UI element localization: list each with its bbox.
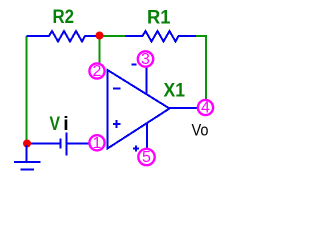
ground symbol	[14, 145, 41, 170]
junction node (red dot, top)	[96, 32, 104, 40]
svg-text:i: i	[63, 113, 68, 135]
output lead from apex to pin 4 (blue)	[170, 107, 199, 109]
pin 3 circle	[138, 51, 153, 68]
pin 5 polarity mark (plus)	[133, 146, 139, 152]
pin 5 circle	[138, 149, 154, 166]
svg-text:Vo: Vo	[192, 122, 209, 140]
svg-text:1: 1	[93, 135, 102, 152]
pin 3 stub (blue)	[146, 67, 148, 95]
wire: junction to R1 left lead (green)	[100, 35, 126, 37]
svg-text:V: V	[50, 113, 61, 135]
pin 5 stub (blue)	[146, 124, 148, 150]
op-amp non-inverting input mark (plus)	[113, 120, 121, 128]
wire: R1 right lead to top-right corner and down to pin 4 (green)	[196, 36, 206, 100]
battery Vi short plate (negative)	[59, 139, 61, 149]
svg-text:5: 5	[142, 149, 151, 166]
pin 2 circle	[89, 63, 104, 80]
svg-text:R2: R2	[53, 6, 75, 28]
resistor R2 (body + leads, blue)	[27, 31, 99, 42]
pin 4 circle	[198, 100, 213, 117]
svg-text:3: 3	[141, 51, 150, 68]
op-amp inverting input mark (minus)	[113, 88, 121, 90]
wire: left vertical net (green)	[26, 36, 28, 141]
battery Vi long plate (positive)	[65, 133, 67, 156]
svg-text:R1: R1	[147, 7, 171, 29]
resistor R1 (body + leads, blue)	[126, 31, 197, 42]
wire: battery to ground junction (blue)	[27, 143, 60, 145]
svg-text:X1: X1	[164, 80, 186, 102]
svg-text:2: 2	[93, 63, 102, 80]
wire: battery to pin 1 (blue)	[68, 143, 92, 145]
junction node (red dot, bottom-left)	[23, 140, 31, 148]
op-amp U triangle X1	[108, 70, 170, 149]
pin 1 circle	[89, 135, 104, 152]
wire: junction down to pin 2 (green)	[99, 37, 101, 63]
svg-text:4: 4	[201, 100, 210, 117]
pin 3 polarity mark (minus)	[132, 64, 137, 66]
